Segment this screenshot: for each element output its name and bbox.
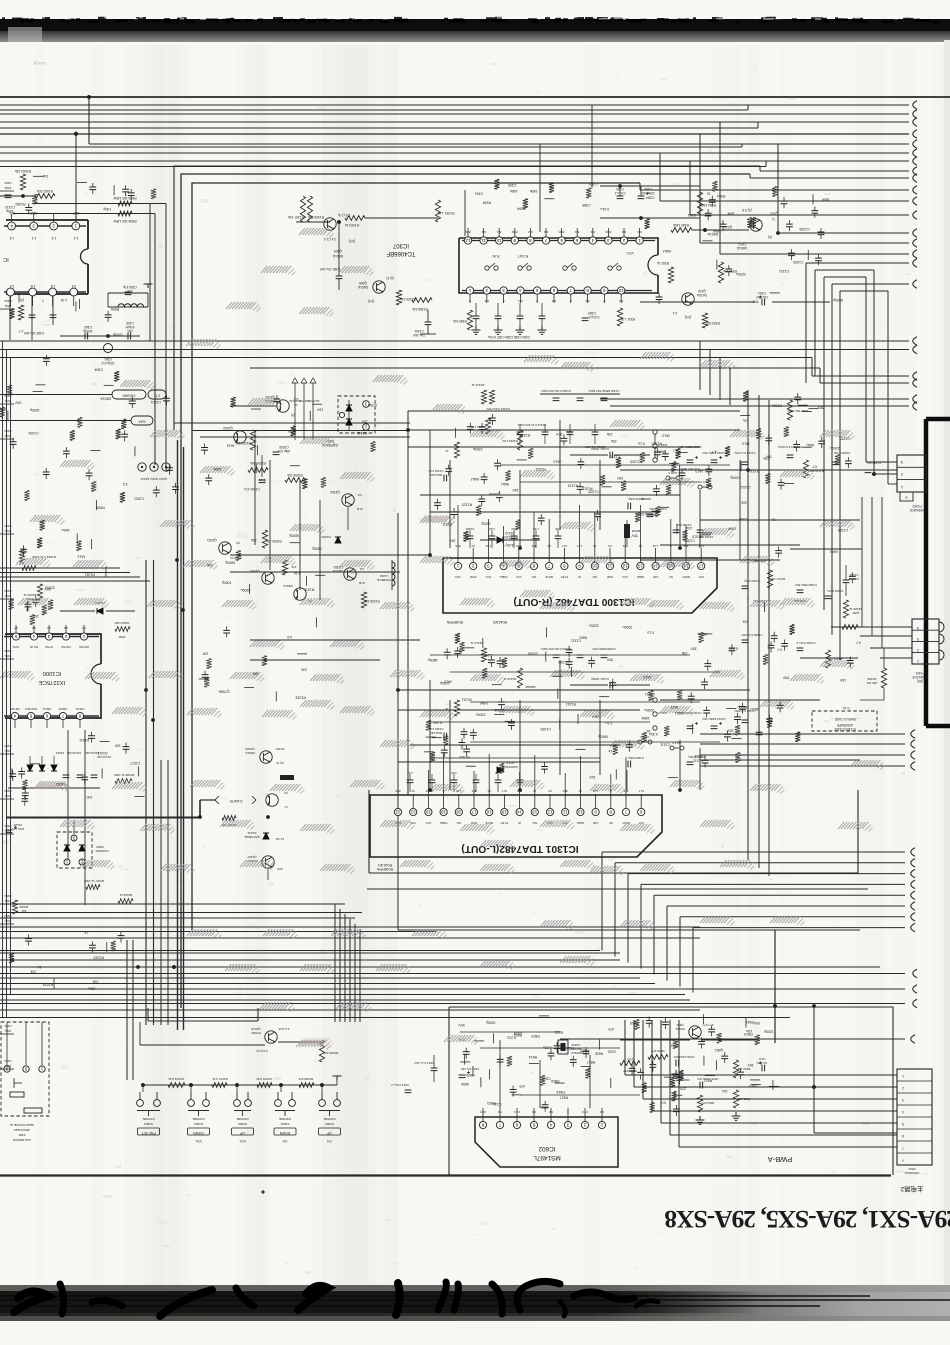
svg-text:JA13: JA13 (227, 444, 235, 448)
svg-text:Q601: Q601 (676, 1023, 684, 1027)
svg-text:N07601CE: N07601CE (905, 1171, 920, 1175)
svg-text:R1311: R1311 (566, 702, 576, 706)
svg-text:1-22: 1-22 (592, 789, 598, 793)
svg-text:1000p: 1000p (30, 408, 40, 412)
svg-text:C813 47u 16V: C813 47u 16V (461, 1067, 480, 1071)
svg-text:S-MUTE: S-MUTE (229, 799, 243, 803)
controller IC602 MS1497L (475, 1108, 618, 1167)
svg-text:R389 10k: R389 10k (453, 319, 467, 323)
svg-text:10k: 10k (42, 174, 48, 178)
svg-text:R-IN: R-IN (492, 254, 499, 258)
schematic bottom border (0, 1174, 891, 1176)
svg-text:100: 100 (253, 672, 259, 676)
svg-text:ST-BY: ST-BY (276, 747, 285, 751)
svg-text:100u: 100u (88, 987, 96, 991)
svg-text:(S5): (S5) (917, 679, 923, 683)
svg-text:R1093 220: R1093 220 (114, 621, 129, 625)
svg-text:UP: UP (239, 1131, 244, 1135)
svg-text:C904: C904 (4, 299, 12, 303)
svg-text:C1311: C1311 (693, 759, 703, 763)
svg-text:IB.4: IB.4 (683, 544, 688, 548)
svg-text:R906: R906 (111, 307, 119, 311)
svg-text:FEED: FEED (577, 821, 584, 825)
svg-text:10u 16V: 10u 16V (757, 1061, 768, 1065)
svg-text:7.2: 7.2 (498, 1110, 502, 1114)
svg-text:NC: NC (609, 821, 613, 825)
svg-text:100p: 100p (4, 186, 11, 190)
svg-text:1000p: 1000p (440, 681, 450, 685)
svg-text:C904: C904 (4, 1024, 12, 1028)
key switch row (137, 1092, 341, 1143)
svg-text:0.22u: 0.22u (507, 1035, 516, 1039)
svg-text:VOL: VOL (239, 1139, 246, 1143)
svg-text:R1070 6.8k: R1070 6.8k (256, 1077, 272, 1081)
svg-text:22k: 22k (611, 439, 617, 443)
svg-text:270: 270 (680, 1086, 686, 1090)
svg-text:(5.9): (5.9) (465, 230, 471, 234)
svg-text:C361: C361 (104, 357, 112, 361)
svg-text:IN: IN (578, 575, 581, 579)
components below IC301 (10, 284, 153, 365)
svg-text:IMAJ: IMAJ (830, 550, 838, 554)
svg-text:R906: R906 (96, 506, 104, 510)
svg-text:1000p: 1000p (486, 1021, 496, 1025)
svg-text:0.22u: 0.22u (543, 1046, 552, 1050)
svg-text:C-IN: C-IN (60, 298, 67, 302)
mid vertical wires dark pair (177, 440, 179, 1030)
svg-text:50V: 50V (817, 406, 824, 410)
pin stub wires above IC1300 (458, 505, 686, 548)
svg-text:C1340 0.15u: C1340 0.15u (833, 451, 850, 455)
svg-text:EX0819GE: EX0819GE (502, 765, 517, 769)
svg-text:Q311: Q311 (738, 242, 746, 246)
amp area wire grid (430, 430, 730, 758)
svg-text:RD99RPW: RD99RPW (376, 867, 393, 871)
resistor R396 (787, 400, 808, 420)
svg-text:-VCC: -VCC (455, 575, 462, 579)
svg-text:R815 475: R815 475 (651, 1049, 664, 1053)
svg-text:C904: C904 (4, 181, 12, 185)
svg-text:22: 22 (395, 809, 400, 814)
svg-text:BOOT: BOOT (682, 575, 690, 579)
svg-text:50V: 50V (782, 675, 789, 679)
svg-text:3.3: 3.3 (123, 482, 128, 486)
svg-text:IADA 16V: IADA 16V (430, 731, 443, 735)
svg-text:C1325: C1325 (588, 489, 598, 493)
svg-text:1.3: 1.3 (74, 236, 79, 240)
svg-text:3: 3 (902, 1098, 904, 1102)
connector P1302 (866, 455, 926, 512)
svg-text:Q1302: Q1302 (330, 490, 340, 494)
svg-text:C1313 0.1u 50V IMAJ: C1313 0.1u 50V IMAJ (517, 423, 546, 427)
svg-text:1/8W: 1/8W (641, 716, 650, 720)
svg-text:R815: R815 (746, 1020, 754, 1024)
svg-text:S1004: S1004 (144, 1122, 153, 1126)
svg-text:1/8W: 1/8W (213, 467, 222, 471)
jumper JA15 column (653, 430, 668, 462)
svg-text:(8.2N): (8.2N) (506, 543, 515, 547)
svg-text:1k: 1k (608, 749, 612, 753)
svg-text:C380 10u 16V: C380 10u 16V (319, 267, 340, 271)
svg-text:180k: 180k (510, 189, 518, 193)
svg-text:IC1300 IC1301: IC1300 IC1301 (834, 727, 856, 731)
svg-text:10: 10 (593, 544, 596, 548)
svg-text:6.3: 6.3 (484, 299, 489, 303)
svg-text:JA13: JA13 (662, 434, 670, 438)
texture cluster top left (32, 194, 37, 204)
diode pack D601 DAP3002K (321, 396, 375, 447)
svg-text:2200u: 2200u (473, 447, 483, 451)
svg-text:R1029: R1029 (43, 983, 53, 987)
svg-text:(0): (0) (639, 544, 642, 548)
svg-text:6Np IC4: 6Np IC4 (278, 449, 290, 453)
svg-text:S1001: S1001 (280, 1122, 289, 1126)
scan band bottom scribbles (14, 1281, 658, 1316)
svg-text:POW: POW (470, 575, 477, 579)
svg-text:C817: C817 (758, 1057, 765, 1061)
svg-text:(0): (0) (236, 541, 240, 545)
svg-text:61.7: 61.7 (561, 544, 567, 548)
svg-text:2200u: 2200u (241, 588, 251, 592)
svg-text:4.9: 4.9 (360, 567, 365, 571)
svg-text:2200u: 2200u (589, 623, 599, 627)
connector P1301 (831, 619, 944, 683)
svg-text:IB.S: IB.S (562, 789, 567, 793)
svg-text:T: T (42, 298, 44, 302)
svg-text:IMAJ: IMAJ (663, 249, 671, 253)
svg-text:1.8: 1.8 (31, 284, 36, 288)
svg-text:RDA1300: RDA1300 (493, 620, 507, 624)
svg-text:C1325: C1325 (630, 459, 640, 463)
svg-text:R1317 180: R1317 180 (771, 577, 786, 581)
svg-text:(5.9): (5.9) (685, 315, 692, 319)
svg-text:29A-SX1, 29A-SX5, 29A-SX8: 29A-SX1, 29A-SX5, 29A-SX8 (665, 1205, 950, 1234)
svg-text:10u: 10u (743, 419, 749, 423)
svg-text:-VCC: -VCC (622, 575, 629, 579)
svg-text:100p IC4: 100p IC4 (101, 361, 114, 365)
svg-text:JA13: JA13 (77, 554, 85, 558)
transistor Q1301 (332, 565, 379, 608)
svg-text:R1080 27k: R1080 27k (323, 1051, 338, 1055)
svg-text:50V: 50V (592, 714, 599, 718)
svg-text:180k: 180k (727, 212, 735, 216)
svg-text:D909: D909 (96, 845, 104, 849)
svg-text:R506 100 1/8W: R506 100 1/8W (113, 219, 137, 223)
wire to P1302 middle pin (620, 468, 897, 472)
svg-text:22k: 22k (301, 668, 307, 672)
texture cluster left col mid (76, 541, 81, 551)
svg-text:JA13: JA13 (671, 705, 679, 709)
svg-text:R1307 15k: R1307 15k (288, 215, 304, 219)
svg-text:1.3: 1.3 (32, 236, 37, 240)
key resistor chain (141, 1076, 341, 1092)
svg-text:(0): (0) (471, 544, 474, 548)
svg-text:4.7: 4.7 (14, 626, 18, 630)
svg-text:C1313 2200u 35V: C1313 2200u 35V (702, 717, 725, 721)
svg-text:VHGAIN: VHGAIN (122, 394, 136, 398)
svg-text:MUTE: MUTE (545, 575, 553, 579)
svg-text:Q1010 Q1011 Q1012: Q1010 Q1011 Q1012 (140, 477, 167, 481)
svg-text:(5.9): (5.9) (559, 230, 565, 234)
svg-text:6800p: 6800p (598, 734, 608, 738)
svg-text:C1313: C1313 (5, 205, 15, 209)
svg-text:C394: C394 (758, 291, 766, 295)
svg-text:C1303 0.47u: C1303 0.47u (826, 589, 843, 593)
svg-text:16V: 16V (316, 408, 323, 412)
ic602 box inner wires (460, 1032, 640, 1108)
svg-text:(5.9): (5.9) (368, 299, 375, 303)
svg-text:10: 10 (618, 288, 623, 293)
svg-text:13: 13 (637, 563, 642, 568)
right caps column mid (741, 570, 843, 668)
svg-text:R1315: R1315 (692, 535, 702, 539)
svg-text:6.9: 6.9 (549, 1110, 553, 1114)
svg-text:14: 14 (653, 563, 658, 568)
svg-text:6.3: 6.3 (544, 230, 549, 234)
svg-text:JAVL006KCE: JAVL006KCE (13, 1138, 31, 1142)
svg-text:22k: 22k (202, 652, 208, 656)
svg-text:R1362: R1362 (15, 202, 25, 206)
svg-text:R1001 30k: R1001 30k (250, 461, 266, 465)
svg-text:4.7: 4.7 (673, 448, 678, 452)
svg-text:C389: C389 (588, 311, 596, 315)
svg-text:10u: 10u (362, 420, 368, 424)
svg-text:10: 10 (577, 809, 582, 814)
svg-text:4.2: 4.2 (32, 626, 36, 630)
svg-text:4.7: 4.7 (712, 449, 717, 453)
svg-text:C816: C816 (608, 1049, 616, 1053)
svg-text:C7.0: C7.0 (582, 1110, 588, 1114)
bus step wires right (640, 122, 917, 258)
fan arrow single (560, 1038, 905, 1040)
svg-text:R1029: R1029 (93, 956, 103, 960)
svg-text:C1325: C1325 (694, 754, 704, 758)
svg-text:4.7: 4.7 (19, 329, 24, 333)
svg-text:S1000: S1000 (325, 1122, 334, 1126)
wires below P1302 (790, 497, 882, 658)
svg-text:6800p: 6800p (289, 533, 299, 537)
svg-text:22k: 22k (207, 563, 213, 567)
svg-text:IA.B: IA.B (359, 581, 365, 585)
svg-text:R813 270: R813 270 (701, 1101, 714, 1105)
svg-text:50V: 50V (555, 432, 562, 436)
svg-text:1/8W: 1/8W (118, 635, 125, 639)
svg-text:C1.9: C1.9 (514, 1110, 520, 1114)
top bus wires (0, 97, 950, 165)
svg-text:JA13: JA13 (695, 469, 703, 473)
svg-text:C1314 0.1u 50V: C1314 0.1u 50V (734, 451, 755, 455)
svg-text:100u 16V: 100u 16V (640, 191, 655, 195)
svg-text:C1325: C1325 (840, 437, 850, 441)
svg-text:ROA1301: ROA1301 (378, 863, 393, 867)
thick right box (926, 419, 950, 726)
cluster above IC1000 (26, 601, 28, 611)
svg-text:D601A: D601A (332, 254, 343, 258)
svg-text:BX008: BX008 (631, 529, 640, 533)
svg-text:R1029: R1029 (19, 905, 28, 909)
svg-text:PNE SET: PNE SET (141, 1131, 155, 1135)
svg-text:R394 180k: R394 180k (700, 203, 716, 207)
cap C380 (319, 220, 342, 290)
svg-text:2200u: 2200u (644, 708, 654, 712)
svg-text:0.01u: 0.01u (600, 207, 609, 211)
svg-text:5: 5 (902, 1122, 904, 1126)
svg-text:R1504 22k: R1504 22k (14, 169, 31, 173)
svg-text:4.7: 4.7 (47, 626, 51, 630)
svg-text:(M): (M) (128, 329, 133, 333)
svg-text:K00790E: K00790E (142, 1117, 154, 1121)
svg-text:C391: C391 (644, 187, 652, 191)
svg-text:R819: R819 (580, 1048, 588, 1052)
diode D1024 (60, 601, 135, 614)
svg-text:R1328 1k: R1328 1k (849, 607, 862, 611)
svg-text:D1314: D1314 (247, 831, 256, 835)
svg-text:C4-8 (3): C4-8 (3) (34, 61, 46, 65)
svg-text:(0): (0) (768, 235, 772, 239)
svg-text:17: 17 (698, 563, 703, 568)
left transistor Q1004 Q1005 (250, 560, 312, 603)
svg-text:VOL: VOL (195, 1139, 202, 1143)
svg-text:C1305 0.1u 50V: C1305 0.1u 50V (741, 633, 762, 637)
svg-text:OSD-G: OSD-G (43, 707, 52, 711)
svg-text:R1027 1k 1/2W: R1027 1k 1/2W (84, 879, 104, 883)
svg-text:C1311: C1311 (571, 639, 581, 643)
svg-text:C1309: C1309 (793, 260, 803, 264)
svg-text:D601A: D601A (100, 397, 111, 401)
svg-text:0.33u: 0.33u (433, 721, 442, 725)
svg-text:C1323 0.33u 50V IMAJ: C1323 0.33u 50V IMAJ (541, 647, 571, 651)
svg-text:C1334 6800p 50V IMAJ: C1334 6800p 50V IMAJ (588, 389, 619, 393)
svg-text:4: 4 (917, 626, 919, 630)
svg-text:C1309 235p: C1309 235p (628, 756, 644, 760)
svg-text:100p: 100p (4, 304, 11, 308)
svg-text:16V: 16V (15, 400, 22, 404)
svg-text:OSD-R: OSD-R (76, 707, 85, 711)
small transistor row y467 (138, 463, 170, 481)
svg-text:P1302: P1302 (912, 504, 921, 508)
video IC1000 IX3275CE (4, 625, 101, 728)
svg-text:475: 475 (519, 1084, 525, 1088)
svg-text:10: 10 (533, 789, 536, 793)
svg-text:P1301: P1301 (915, 671, 924, 675)
svg-text:Q708A: Q708A (218, 689, 230, 693)
svg-text:1-22: 1-22 (407, 771, 413, 775)
svg-text:IC307: IC307 (392, 242, 409, 248)
svg-text:R391 1.3k: R391 1.3k (620, 317, 635, 321)
svg-text:1/8W: 1/8W (728, 527, 737, 531)
caps below TC4066 (453, 303, 635, 339)
svg-text:R812: R812 (704, 1079, 712, 1083)
svg-text:100p: 100p (4, 1064, 11, 1068)
svg-text:R820: R820 (466, 1073, 474, 1077)
svg-text:6800p: 6800p (428, 658, 438, 662)
svg-text:C1311: C1311 (357, 431, 367, 435)
svg-text:R1311: R1311 (304, 588, 314, 592)
transistor Q1302 with diode (321, 490, 363, 543)
svg-text:C1325: C1325 (799, 227, 809, 231)
svg-text:1000p: 1000p (113, 332, 123, 336)
svg-text:C816 0.22u 50V: C816 0.22u 50V (673, 1055, 694, 1059)
svg-text:C1309: C1309 (754, 559, 764, 563)
right mid arrows (866, 259, 917, 484)
svg-text:C1.3N: C1.3N (276, 837, 285, 841)
svg-text:C362: C362 (84, 325, 92, 329)
right bundle verticals (806, 263, 909, 660)
svg-text:IC: IC (3, 256, 9, 262)
svg-text:5.0 (5.9): 5.0 (5.9) (256, 1049, 267, 1053)
svg-text:6.3: 6.3 (497, 230, 502, 234)
svg-text:VCC: VCC (626, 251, 634, 255)
svg-text:A.2: A.2 (293, 397, 298, 401)
svg-text:1-18: 1-18 (456, 789, 462, 793)
resistor R1391 (435, 200, 440, 222)
svg-text:IMAJ: IMAJ (806, 443, 814, 447)
svg-text:J06A7CE22: J06A7CE22 (14, 1128, 30, 1132)
svg-text:ST-BY: ST-BY (560, 575, 568, 579)
svg-text:50V: 50V (616, 476, 623, 480)
svg-text:C1322 0.33u 50V IMAJ: C1322 0.33u 50V IMAJ (541, 389, 571, 393)
svg-text:0.01u 2: 0.01u 2 (588, 315, 599, 319)
texture right of TC4066 (818, 232, 825, 235)
svg-text:IMAJ: IMAJ (501, 482, 509, 486)
svg-text:1000p: 1000p (764, 1029, 774, 1033)
svg-text:17: 17 (471, 809, 476, 814)
bus drop wire x76 (75, 134, 77, 222)
left transistor cluster Q1000 (230, 395, 298, 417)
svg-text:(5.9): (5.9) (512, 230, 518, 234)
wire crumbs center (230, 420, 860, 790)
svg-text:270: 270 (627, 1057, 633, 1061)
svg-text:C1311: C1311 (660, 742, 670, 746)
resistor R1314 R1312 pair (471, 383, 510, 411)
svg-text:GND: GND (607, 575, 613, 579)
small box above keys (148, 1008, 258, 1021)
svg-text:C814 0.1u 16V: C814 0.1u 16V (414, 1061, 433, 1065)
svg-text:12: 12 (465, 238, 470, 243)
svg-text:C1320: C1320 (465, 527, 474, 531)
svg-text:1/8W: 1/8W (480, 701, 489, 705)
svg-text:D601A: D601A (282, 584, 292, 588)
svg-text:4.7: 4.7 (82, 626, 86, 630)
svg-text:IC4: IC4 (661, 1101, 667, 1105)
svg-text:C389: C389 (589, 182, 597, 186)
svg-text:50V: 50V (458, 1023, 465, 1027)
svg-text:IC1301 TDA7482(L-OUT): IC1301 TDA7482(L-OUT) (461, 843, 578, 854)
svg-text:R1315 1k: R1315 1k (503, 677, 516, 681)
svg-text:C1016 22p: C1016 22p (67, 751, 82, 755)
svg-text:4.7: 4.7 (812, 465, 817, 469)
svg-text:Q308: Q308 (359, 281, 367, 285)
svg-text:1.8: 1.8 (51, 284, 56, 288)
caps above TC4066 (600, 186, 716, 218)
frame wire outer (174, 166, 760, 430)
svg-text:UP: UP (326, 1131, 331, 1135)
svg-text:R1315: R1315 (520, 433, 530, 437)
svg-text:NC: NC (669, 575, 673, 579)
svg-text:D601A: D601A (357, 285, 368, 289)
svg-text:1/2W: 1/2W (852, 611, 859, 615)
scan band top (0, 19, 950, 42)
svg-text:10u 16V: 10u 16V (755, 295, 768, 299)
svg-text:4.7: 4.7 (777, 647, 782, 651)
svg-text:R1028 1k 1/8W: R1028 1k 1/8W (114, 773, 134, 777)
svg-text:2200u: 2200u (736, 272, 746, 276)
svg-text:R505 100 1/8W: R505 100 1/8W (113, 196, 137, 200)
svg-text:IN: IN (518, 821, 521, 825)
svg-text:(0): (0) (547, 544, 550, 548)
svg-text:R1315: R1315 (651, 441, 661, 445)
svg-text:R1005 47k: R1005 47k (266, 539, 282, 543)
